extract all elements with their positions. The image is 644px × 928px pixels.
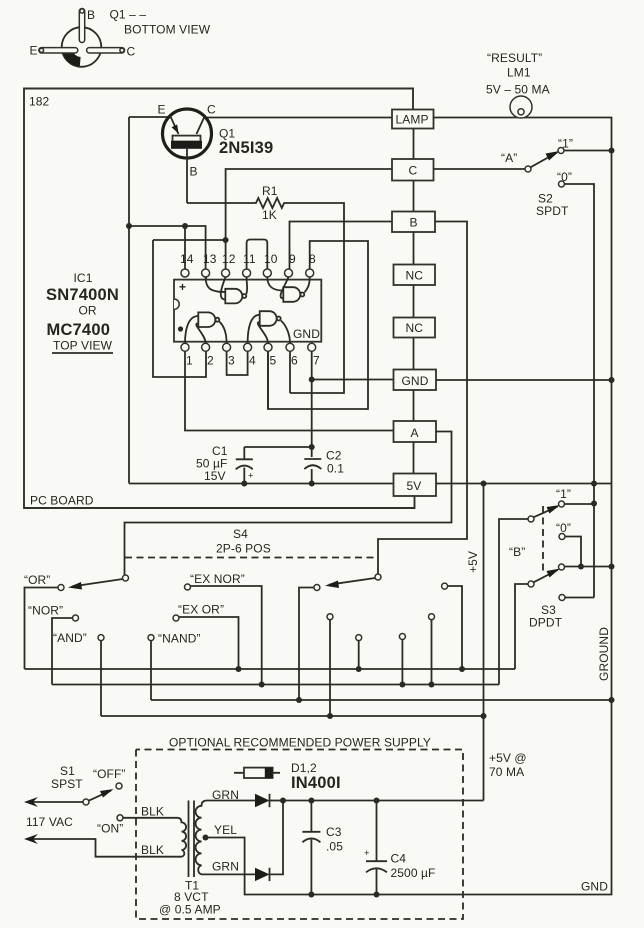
svg-text:“RESULT”: “RESULT”	[487, 51, 542, 65]
svg-text:70 MA: 70 MA	[489, 765, 524, 779]
svg-text:C3: C3	[326, 825, 342, 839]
svg-text:2N5I39: 2N5I39	[219, 139, 273, 157]
svg-text:2: 2	[207, 354, 214, 368]
svg-text:B: B	[410, 216, 418, 230]
svg-text:0.1: 0.1	[327, 462, 344, 476]
svg-text:10: 10	[264, 252, 278, 266]
svg-text:D1,2: D1,2	[291, 761, 317, 775]
svg-text:E: E	[30, 44, 38, 58]
svg-text:YEL: YEL	[214, 823, 237, 837]
svg-text:“0”: “0”	[556, 521, 571, 535]
svg-text:.05: .05	[326, 840, 343, 854]
svg-text:C2: C2	[326, 449, 342, 463]
svg-text:TOP VIEW: TOP VIEW	[53, 339, 113, 353]
svg-text:NC: NC	[406, 269, 424, 283]
svg-text:182: 182	[29, 95, 50, 109]
svg-text:+5V: +5V	[466, 551, 480, 573]
svg-text:LM1: LM1	[507, 66, 531, 80]
svg-text:BOTTOM VIEW: BOTTOM VIEW	[124, 23, 211, 37]
svg-text:“NOR”: “NOR”	[28, 604, 63, 618]
svg-text:Q1 – –: Q1 – –	[110, 8, 147, 22]
svg-text:GRN: GRN	[212, 860, 239, 874]
svg-text:GRN: GRN	[212, 788, 239, 802]
svg-text:B: B	[87, 8, 95, 22]
svg-text:“B”: “B”	[509, 545, 525, 559]
svg-text:DPDT: DPDT	[529, 616, 563, 630]
svg-text:A: A	[411, 426, 419, 440]
svg-text:“A”: “A”	[501, 151, 517, 165]
svg-text:+5V @: +5V @	[489, 751, 527, 765]
svg-text:IN400I: IN400I	[291, 774, 341, 792]
svg-text:SPST: SPST	[51, 777, 83, 791]
svg-text:“1”: “1”	[558, 137, 573, 151]
svg-text:E: E	[158, 103, 166, 117]
svg-text:OR: OR	[79, 304, 97, 318]
svg-text:“0”: “0”	[557, 170, 572, 184]
svg-text:14: 14	[180, 252, 194, 266]
svg-text:13: 13	[203, 252, 217, 266]
svg-text:MC7400: MC7400	[47, 321, 111, 339]
svg-text:“EX NOR”: “EX NOR”	[190, 572, 245, 586]
svg-text:S4: S4	[233, 527, 248, 541]
svg-text:5: 5	[270, 354, 277, 368]
svg-text:B: B	[190, 165, 198, 179]
svg-text:“NAND”: “NAND”	[158, 632, 201, 646]
svg-text:+: +	[364, 848, 370, 859]
svg-text:7: 7	[313, 354, 320, 368]
svg-text:117 VAC: 117 VAC	[26, 815, 73, 829]
svg-text:9: 9	[289, 252, 296, 266]
svg-text:GND: GND	[402, 374, 429, 388]
svg-text:3: 3	[228, 354, 235, 368]
svg-text:LAMP: LAMP	[396, 113, 429, 127]
svg-text:“OFF”: “OFF”	[93, 767, 126, 781]
svg-text:“AND”: “AND”	[53, 631, 87, 645]
svg-text:NC: NC	[406, 321, 424, 335]
svg-text:SN7400N: SN7400N	[46, 286, 119, 304]
svg-text:IC1: IC1	[74, 271, 93, 285]
svg-text:1K: 1K	[262, 208, 277, 222]
svg-text:SPDT: SPDT	[536, 204, 569, 218]
svg-text:C: C	[207, 103, 216, 117]
svg-text:“1”: “1”	[556, 487, 571, 501]
svg-text:C4: C4	[391, 852, 407, 866]
svg-text:OPTIONAL RECOMMENDED POWER SUP: OPTIONAL RECOMMENDED POWER SUPPLY	[169, 736, 431, 750]
svg-text:5V – 50 MA: 5V – 50 MA	[486, 83, 550, 97]
svg-text:+: +	[248, 471, 254, 482]
svg-text:GROUND: GROUND	[597, 627, 611, 681]
svg-text:GND: GND	[293, 327, 320, 341]
svg-text:GND: GND	[581, 880, 608, 894]
svg-text:“EX OR”: “EX OR”	[178, 603, 224, 617]
svg-text:“OR”: “OR”	[24, 573, 50, 587]
svg-text:11: 11	[243, 252, 256, 266]
svg-text:C: C	[127, 45, 136, 59]
svg-text:2500 µF: 2500 µF	[391, 866, 436, 880]
svg-text:BLK: BLK	[141, 805, 164, 819]
svg-text:S1: S1	[60, 764, 75, 778]
svg-text:4: 4	[249, 354, 256, 368]
svg-text:5V: 5V	[407, 479, 422, 493]
svg-text:BLK: BLK	[141, 843, 164, 857]
svg-text:8: 8	[309, 252, 316, 266]
svg-text:R1: R1	[262, 184, 278, 198]
svg-text:+: +	[179, 280, 186, 294]
svg-text:PC BOARD: PC BOARD	[30, 494, 94, 508]
svg-text:@ 0.5 AMP: @ 0.5 AMP	[159, 903, 221, 917]
svg-text:C: C	[409, 164, 418, 178]
svg-text:15V: 15V	[204, 469, 226, 483]
svg-text:6: 6	[291, 354, 298, 368]
svg-text:1: 1	[186, 354, 193, 368]
svg-text:2P-6 POS: 2P-6 POS	[216, 542, 271, 556]
svg-text:12: 12	[222, 252, 236, 266]
svg-text:“ON”: “ON”	[97, 822, 123, 836]
